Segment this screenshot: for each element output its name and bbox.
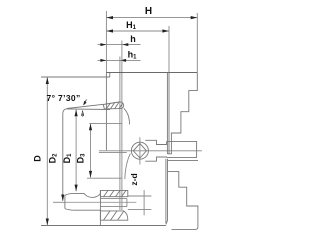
pinion square socket (diamond) [133,144,146,158]
jaw top outer line [106,71,197,73]
dimension D line [46,78,48,226]
body bottom face line (extension for D) [41,225,166,227]
svg-text:D1: D1 [62,153,73,164]
arrow D1 bottom [75,185,78,192]
svg-text:H: H [145,6,152,17]
body front top corner arc [63,109,67,114]
back plate lower hatched section [100,211,127,220]
lower jaw outer edge [165,159,167,224]
wire: left extension line for top dims [105,11,107,72]
upper jaw staircase [167,72,197,153]
dimension H1 line [106,30,169,32]
upper jaw inner edge [168,72,170,153]
wire: D2 bottom extension line [53,201,65,203]
jaw flank arc [124,108,130,124]
arrow D1 top [75,110,78,117]
lower jaw staircase [168,172,198,230]
stud thread lines [100,199,127,207]
svg-text:h: h [130,34,136,44]
rear recess lines right of stud [128,196,151,209]
svg-text:7° 7’30”: 7° 7’30” [47,93,81,103]
stud top edge with key-hole dip [72,193,100,197]
stud body bottom edge [72,209,100,211]
wire: right extension line for H [196,13,198,72]
recess arc near circle [125,154,131,180]
angle leader arrow [84,100,87,105]
arrow D2 bottom [61,195,64,202]
dimension D1 line [75,110,77,192]
rear recess vertical [143,190,145,215]
svg-text:z-d: z-d [129,173,139,185]
arrow D3 bottom [89,171,92,178]
wire: D3 bottom extension line [87,177,122,179]
svg-text:D3: D3 [76,153,87,164]
jaw base wedge (hatched) [103,102,124,109]
wire: right extension line for H1 [168,26,170,72]
small up arrow b on lower slant [81,110,84,116]
arrow H left [106,16,113,19]
wire: D3 top extension line [89,123,122,125]
svg-text:D: D [33,155,43,162]
wedge hatching [106,102,123,109]
arrow H right [191,16,198,19]
stud head [65,193,72,210]
arrow h right (outside) [122,43,128,46]
pinion flange section [145,140,166,161]
arrow h left (outside) [100,43,106,46]
wire: stud centerline [65,201,137,203]
dimension h1 line [98,59,141,61]
slot bottom line [99,152,127,154]
pinion horizontal centerline [99,150,202,152]
pinion vertical centerline [139,137,141,164]
arrow h1 left (outside) [100,59,106,62]
arrow H1 right [162,29,169,32]
step between jaw top and face [109,72,111,77]
arrow H1 left [106,29,113,32]
arrow D bottom [46,219,49,226]
chuck top face line (extension for D) [41,76,110,78]
pinion circle [131,142,148,159]
dimension D3 line [90,124,92,178]
wire: slot extension line outer (h) [121,41,123,211]
lower band top edge [168,160,199,162]
taper lower slant line [67,108,110,111]
dimension h line [98,44,141,46]
svg-text:D2: D2 [48,153,59,164]
back plate front face [99,190,101,225]
taper upper slant line (7 deg) [67,104,104,108]
svg-text:h1: h1 [128,50,138,61]
dimension H line [106,17,197,19]
arrow h1 right (outside) [120,59,126,62]
arrow D3 top [89,124,92,131]
lower jaw inner edge with foot tip [166,159,168,224]
wire: slot extension line inner (h1) [119,57,121,211]
jaw section left edge [105,72,107,150]
dimension D2 line / body front face edge [62,114,64,201]
back plate upper hatched section [100,190,127,196]
svg-text:H1: H1 [126,20,137,31]
upper jaw outer edge [166,72,168,153]
arrow D top [46,77,49,84]
pinion shaft [167,141,197,157]
